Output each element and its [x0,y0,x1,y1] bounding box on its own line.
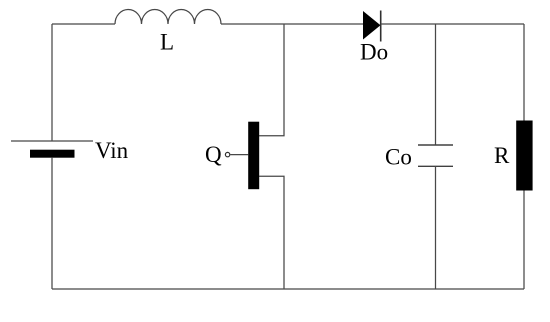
svg-text:L: L [160,29,174,54]
resistor R [516,121,532,191]
voltage source Vin (battery) [11,141,93,158]
svg-text:Co: Co [385,145,412,170]
capacitor Co [418,145,453,166]
wire left branch lower (battery to bottom corner) [51,158,53,289]
wire drain lead [259,24,284,136]
transistor Q body bar [248,122,259,190]
svg-text:Q: Q [205,142,222,167]
wire top-middle segment (L to Do) [221,23,363,25]
wire Co branch lower [435,166,437,289]
wire Co branch upper [435,24,437,145]
wire right branch lower [523,191,525,290]
wire top-right segment (Do to right corner) [381,23,524,25]
wire top-left segment [52,23,115,25]
wire left branch upper (top corner to battery) [51,24,53,141]
svg-text:R: R [494,143,510,168]
inductor L [115,9,221,24]
wire right branch upper [523,24,525,121]
wire bottom rail [52,288,524,290]
transistor Q gate bubble [225,152,229,156]
diode Do [363,11,381,42]
wire gate lead [230,154,248,156]
svg-text:Do: Do [360,40,388,65]
wire source lead [259,176,284,289]
svg-text:Vin: Vin [95,138,129,163]
